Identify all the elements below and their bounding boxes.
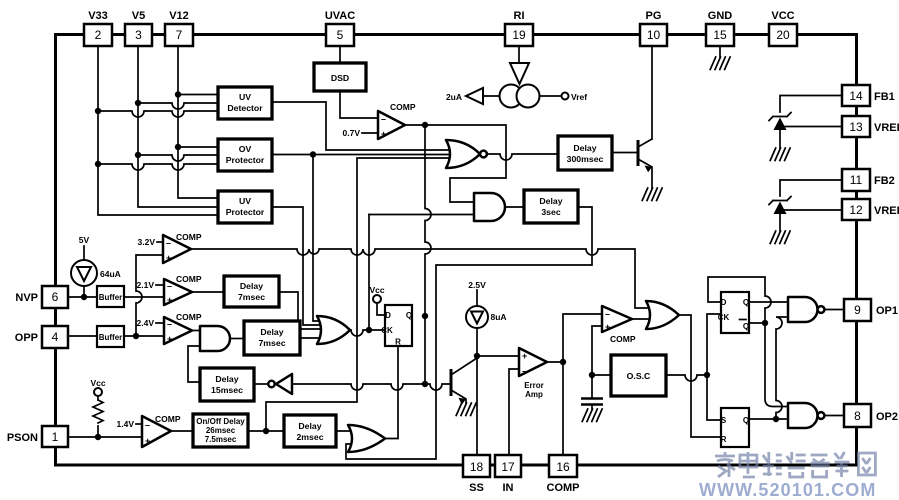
svg-text:–: – <box>167 281 172 291</box>
wire delay 2msec to OR2 <box>336 430 360 432</box>
ground capacitor <box>582 409 602 422</box>
svg-text:VREF: VREF <box>874 122 899 134</box>
box UV Detector <box>218 87 272 119</box>
wire VREF1 pin to zener1 <box>780 126 842 128</box>
svg-text:2: 2 <box>95 28 102 42</box>
svg-text:NVP: NVP <box>15 292 38 304</box>
wire AND1 to delay7msec-2 <box>230 338 244 340</box>
svg-text:Delay: Delay <box>539 196 562 206</box>
wire UV detector output to NOR <box>272 102 460 150</box>
svg-text:Q: Q <box>743 298 749 307</box>
gate OR2 <box>348 425 385 452</box>
wire V5 rail <box>135 46 218 207</box>
svg-text:Delay: Delay <box>240 281 263 291</box>
svg-text:WWW.520101.COM: WWW.520101.COM <box>699 480 876 500</box>
transistor PG <box>638 139 652 188</box>
wire V33 to OV protector <box>98 164 218 170</box>
svg-text:+: + <box>381 129 386 139</box>
wire delay7msec-2 to OR1 <box>300 337 330 339</box>
comparator 3.2V <box>163 232 202 263</box>
svg-text:26msec: 26msec <box>206 426 236 435</box>
svg-text:2uA: 2uA <box>446 92 462 102</box>
svg-text:OP1: OP1 <box>876 305 898 317</box>
svg-text:0.7V: 0.7V <box>343 128 361 138</box>
resistor PSON pull-up <box>93 400 103 423</box>
wire buffer1 to 2.1V comparator <box>124 296 164 298</box>
svg-text:+: + <box>167 295 172 305</box>
svg-text:11: 11 <box>850 173 863 187</box>
wire NVP pin to buffer <box>68 246 97 300</box>
svg-text:15msec: 15msec <box>211 385 243 395</box>
box On/Off Delay <box>193 414 248 447</box>
wire resistor to PSON node <box>97 396 99 437</box>
wire SR Q to NAND2 <box>749 416 788 422</box>
svg-text:2.4V: 2.4V <box>137 318 155 328</box>
svg-text:Vcc: Vcc <box>369 285 384 295</box>
pin 5 UVAC <box>325 10 355 46</box>
pin 13 VREF1 <box>842 116 899 137</box>
wire 0.7V to comparator plus <box>362 132 378 134</box>
watermark chinese text (drawn as vector pseudo-glyphs) <box>715 452 875 477</box>
wire delay7msec-1 output to OR1 <box>279 292 331 329</box>
wire SR Q up to NAND1 <box>776 317 788 419</box>
svg-text:PG: PG <box>646 10 662 22</box>
svg-text:Delay: Delay <box>260 327 283 337</box>
gate NAND2 <box>788 403 824 428</box>
wire RI pin19 stem <box>518 46 520 63</box>
svg-text:COMP: COMP <box>610 334 636 344</box>
wire DFF2 Q to NAND1 <box>749 301 788 303</box>
pin 2 V33 <box>84 10 112 46</box>
gate OR1 <box>317 316 350 344</box>
svg-text:V5: V5 <box>132 10 145 22</box>
gate NAND1 <box>788 297 824 322</box>
wire UVAC pin5 to DSD <box>339 46 341 63</box>
svg-text:7msec: 7msec <box>238 292 265 302</box>
svg-text:Delay: Delay <box>215 374 238 384</box>
svg-text:7.5msec: 7.5msec <box>205 435 237 444</box>
pin 10 PG <box>640 10 667 46</box>
svg-text:5V: 5V <box>79 235 90 245</box>
gate inverter <box>268 374 292 394</box>
box UV Protector <box>218 191 272 223</box>
pin 19 RI <box>505 10 533 46</box>
wire V12 to UV detector <box>178 94 218 96</box>
wire 1.4V dash <box>136 423 142 425</box>
svg-text:–: – <box>167 319 172 329</box>
pin 16 COMP <box>547 455 580 494</box>
pin 14 FB1 <box>842 85 895 106</box>
svg-text:–: – <box>381 114 386 124</box>
svg-text:7msec: 7msec <box>258 338 285 348</box>
flip-flop DFF1 <box>381 305 412 347</box>
flip-flop DFF2 <box>718 292 749 333</box>
svg-text:+: + <box>145 436 150 446</box>
svg-text:3: 3 <box>135 28 142 42</box>
wire buffer2 node up to 3.2V comparator <box>136 255 163 336</box>
svg-text:IN: IN <box>503 482 514 494</box>
svg-text:1: 1 <box>52 430 59 444</box>
svg-text:8uA: 8uA <box>491 312 507 322</box>
zener diode Z2 <box>769 197 791 215</box>
svg-text:R: R <box>395 338 401 347</box>
svg-text:D: D <box>721 298 727 307</box>
svg-text:Amp: Amp <box>525 390 543 399</box>
svg-text:COMP: COMP <box>547 482 580 494</box>
wire zener1 to ground <box>779 129 781 148</box>
svg-text:2msec: 2msec <box>296 432 323 442</box>
svg-text:15: 15 <box>713 28 727 42</box>
wire V5 to UV detector <box>138 103 218 109</box>
wire FB2 pin to zener2 <box>780 180 842 196</box>
box Delay 15msec <box>200 368 254 401</box>
svg-text:COMP: COMP <box>176 232 202 242</box>
box Buffer NVP <box>97 286 124 307</box>
svg-text:RI: RI <box>514 10 525 22</box>
svg-text:VCC: VCC <box>771 10 794 22</box>
gate NOR main <box>446 140 487 168</box>
wire 1.4V comparator to on/off delay <box>171 430 193 432</box>
transistor SS <box>451 358 477 405</box>
pin 6 NVP <box>15 286 68 308</box>
wire NAND2 to OP2 pin <box>825 415 845 417</box>
box OV Protector <box>218 139 272 171</box>
svg-text:12: 12 <box>849 203 863 217</box>
svg-text:COMP: COMP <box>155 414 181 424</box>
svg-text:9: 9 <box>854 303 861 317</box>
wire 2.1V comparator to delay7msec-1 <box>192 291 224 293</box>
svg-text:2.1V: 2.1V <box>137 280 155 290</box>
wire zener2 to ground <box>779 213 781 231</box>
wire OPP pin to buffer <box>68 335 97 337</box>
wire 3.2V dash <box>157 241 163 243</box>
svg-text:13: 13 <box>849 120 863 134</box>
svg-text:UV: UV <box>239 92 251 102</box>
box Buffer OPP <box>97 326 124 347</box>
svg-text:+: + <box>167 334 172 344</box>
wire AND2 input from x369 <box>366 215 474 334</box>
svg-text:UVAC: UVAC <box>325 10 355 22</box>
svg-text:Protector: Protector <box>226 207 265 217</box>
wire V5 to OV protector <box>138 155 218 161</box>
ground zener1 <box>770 148 790 161</box>
wire GND pin15 stem <box>719 46 721 57</box>
svg-text:S: S <box>721 416 727 425</box>
pin 7 V12 <box>165 10 193 46</box>
pin 4 OPP <box>15 326 68 348</box>
pin 15 GND <box>706 10 734 46</box>
wire 2.4V comparator to AND1 <box>192 330 200 332</box>
node comparator UVAC output <box>404 122 506 202</box>
svg-text:18: 18 <box>470 460 484 474</box>
pin 18 SS <box>463 455 490 494</box>
ground PG transistor <box>642 188 662 201</box>
svg-text:FB1: FB1 <box>874 91 895 103</box>
svg-text:COMP: COMP <box>176 312 202 322</box>
wire 3.2V comparator long output to OR3 <box>191 249 658 308</box>
svg-text:6: 6 <box>52 290 59 304</box>
wire NAND1 to OP1 pin <box>825 309 845 311</box>
wire OR3 output to SR latch R <box>679 315 721 437</box>
wire PSON pin to comparator <box>68 434 142 440</box>
comparator UVAC 0.7V <box>378 102 416 139</box>
wire OR2 output to DFF1 R <box>385 346 398 439</box>
wire FB1 pin to zener1 <box>780 96 842 113</box>
wire V33 to UV detector <box>98 111 218 117</box>
wire 8uA source to SS pin <box>474 328 480 455</box>
svg-text:PSON: PSON <box>7 432 38 444</box>
wire comparator vertical x425 <box>422 125 431 387</box>
zener diode Z1 <box>769 113 791 131</box>
box DSD <box>314 63 366 91</box>
wire SS node to error amp plus <box>477 355 519 357</box>
svg-text:SS: SS <box>469 482 484 494</box>
svg-text:Q: Q <box>406 311 412 320</box>
wire Qbar to NAND2 <box>765 323 788 407</box>
svg-text:+: + <box>605 322 610 332</box>
box Delay 2msec <box>284 415 336 447</box>
svg-text:OPP: OPP <box>15 332 38 344</box>
svg-text:3.2V: 3.2V <box>138 237 156 247</box>
comparator 2.1V <box>164 274 202 305</box>
svg-text:–: – <box>605 309 610 319</box>
wire 8uA source stem <box>476 290 478 306</box>
Vcc symbol DFF1 <box>373 295 381 303</box>
wire DFF2 Qbar node <box>749 320 768 326</box>
svg-text:OP2: OP2 <box>876 411 898 423</box>
pin 12 VREF2 <box>842 199 899 220</box>
wire V12 to OV protector <box>178 146 218 148</box>
svg-text:8: 8 <box>854 409 861 423</box>
svg-text:10: 10 <box>647 28 661 42</box>
wire delay15 input from inverter <box>254 383 268 385</box>
IC boundary <box>56 35 857 466</box>
pin 1 PSON <box>7 426 68 447</box>
wire delay 3sec output loop to OR2 <box>346 207 592 459</box>
svg-text:CK: CK <box>381 326 393 335</box>
wire delay15 output to AND1 <box>188 346 200 382</box>
current source 8uA <box>466 306 488 328</box>
ground SS transistor <box>456 403 476 416</box>
box Delay 300msec <box>558 136 612 170</box>
pin 11 FB2 <box>842 169 895 191</box>
svg-text:Q: Q <box>743 322 749 331</box>
box Delay 7msec upper <box>224 276 279 307</box>
wire buffer2 to 2.4V comparator <box>124 333 164 339</box>
svg-text:On/Off Delay: On/Off Delay <box>196 417 245 426</box>
svg-text:1.4V: 1.4V <box>117 419 135 429</box>
svg-text:16: 16 <box>556 460 570 474</box>
svg-text:Vref: Vref <box>571 92 587 102</box>
svg-text:300msec: 300msec <box>567 154 604 164</box>
svg-text:Buffer: Buffer <box>99 333 123 342</box>
wire OV protector output to NOR <box>272 151 462 321</box>
node OSC cap <box>589 326 611 397</box>
svg-text:V33: V33 <box>88 10 108 22</box>
svg-text:Buffer: Buffer <box>99 293 123 302</box>
wire IN pin to error amp minus <box>509 369 519 455</box>
svg-text:UV: UV <box>239 196 251 206</box>
svg-text:Delay: Delay <box>298 421 321 431</box>
wire OSC output <box>666 314 721 420</box>
pin 17 IN <box>495 455 521 494</box>
svg-text:COMP: COMP <box>390 102 416 112</box>
svg-text:Delay: Delay <box>573 143 596 153</box>
svg-text:DSD: DSD <box>331 73 349 83</box>
ground GND pin <box>710 57 730 70</box>
current mirror RI <box>466 63 569 108</box>
pin 9 OP1 <box>844 299 898 321</box>
wire Vcc to DFF1 D input <box>377 303 385 315</box>
wire 2.4V dash <box>156 322 164 324</box>
svg-text:VREF: VREF <box>874 205 899 217</box>
svg-text:GND: GND <box>708 10 733 22</box>
wire OR1 output to DFF1 CK <box>350 330 385 336</box>
latch SR <box>721 408 750 447</box>
svg-text:–: – <box>522 366 527 376</box>
svg-text:O.S.C: O.S.C <box>627 371 651 381</box>
wire capacitor to ground <box>591 405 593 410</box>
ground zener2 <box>770 231 790 244</box>
svg-text:2.5V: 2.5V <box>468 280 486 290</box>
wire NOR output to delay 300msec <box>487 154 558 160</box>
svg-text:Error: Error <box>524 381 544 390</box>
wire 2.1V dash <box>156 284 164 286</box>
comparator PWM <box>602 306 636 344</box>
box Delay 3sec <box>524 190 578 223</box>
svg-text:COMP: COMP <box>176 274 202 284</box>
wire delay 300msec to PG transistor <box>612 152 638 154</box>
wire DFF2 feedback loop <box>708 277 771 323</box>
wire UV protector output to OR1 <box>272 207 331 325</box>
wire PG pin10 to transistor collector <box>651 46 653 139</box>
svg-text:19: 19 <box>512 28 526 42</box>
svg-text:Protector: Protector <box>226 155 265 165</box>
svg-text:V12: V12 <box>169 10 189 22</box>
wire error amp output to COMP pin <box>547 314 602 455</box>
pin 20 VCC <box>769 10 797 46</box>
pin 8 OP2 <box>844 404 898 427</box>
wire delay15 inverter line to transistor base <box>292 384 451 390</box>
wire V33 rail <box>95 46 218 215</box>
wire on/off delay to delay 2msec <box>248 428 284 434</box>
svg-text:–: – <box>166 238 171 248</box>
wire DSD to comparator minus <box>340 91 378 118</box>
svg-text:17: 17 <box>501 460 515 474</box>
Vcc symbol PSON <box>94 388 102 396</box>
svg-text:–: – <box>145 420 150 430</box>
wire on/off delay net x357 to NOR <box>266 158 460 431</box>
capacitor OSC <box>581 399 603 405</box>
svg-text:20: 20 <box>776 28 790 42</box>
gate AND2 <box>474 193 505 221</box>
svg-text:OV: OV <box>239 144 252 154</box>
svg-text:Q: Q <box>743 416 749 425</box>
gate OR3 <box>646 301 679 329</box>
svg-text:64uA: 64uA <box>100 269 121 279</box>
wire VREF2 pin to zener2 <box>780 209 842 211</box>
svg-text:+: + <box>522 351 527 361</box>
current source 64uA <box>71 260 97 286</box>
svg-text:3sec: 3sec <box>541 207 560 217</box>
op-amp error amplifier <box>519 348 547 399</box>
svg-text:7: 7 <box>176 28 183 42</box>
comparator 2.4V <box>164 312 202 344</box>
wire V12 rail <box>175 46 218 198</box>
svg-text:5: 5 <box>337 28 344 42</box>
svg-text:4: 4 <box>52 330 59 344</box>
box Delay 7msec lower <box>244 321 300 355</box>
comparator 1.4V <box>142 414 181 447</box>
svg-text:CK: CK <box>718 313 730 322</box>
svg-text:D: D <box>385 311 391 320</box>
svg-text:14: 14 <box>849 89 863 103</box>
svg-text:Vcc: Vcc <box>90 378 105 388</box>
pin 3 V5 <box>125 10 152 46</box>
wire AND2 output to delay 3sec <box>505 206 524 208</box>
gate AND1 <box>200 326 230 351</box>
svg-text:Detector: Detector <box>227 103 263 113</box>
svg-text:+: + <box>166 253 171 263</box>
svg-text:R: R <box>721 435 727 444</box>
box O.S.C <box>611 355 666 396</box>
wire PWM comparator to OR3 <box>632 318 658 320</box>
svg-text:FB2: FB2 <box>874 175 895 187</box>
